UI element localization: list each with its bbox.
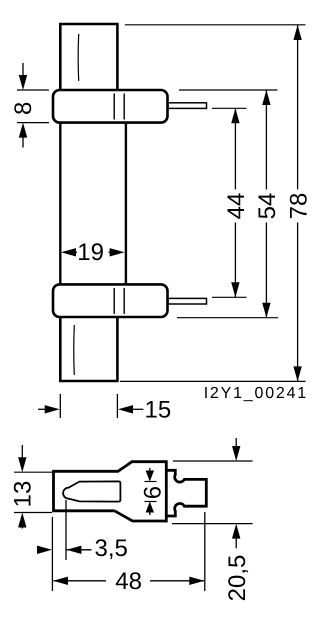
svg-text:6: 6 [140,486,167,499]
bottom tube [60,315,117,381]
extension line clamp1 top (54) [179,89,278,91]
clamp 1 slot lines [113,94,115,120]
fuse tube body (between clamps) [60,121,126,286]
clamp 2 (lower holder) [53,284,168,317]
svg-text:44: 44 [223,193,250,220]
svg-text:19: 19 [77,239,104,266]
bottom view right edge of wide section [165,460,168,522]
dimension 19 arrows [61,248,76,256]
top cap [60,24,117,91]
extension line tube bottom [120,380,306,382]
dimension 15 ticks [59,394,61,418]
dimension 44 line [234,108,236,297]
dimension 48 line and arrows [54,580,107,582]
dimension 15 arrows [38,408,45,410]
extension line clamp2 bottom (54) [177,317,278,319]
clamp 1 (upper holder) [53,90,168,123]
dimension 20,5 arrows [235,438,237,457]
dimension 6 arrows [149,468,151,471]
dimension 48 ticks [204,512,206,591]
svg-text:13: 13 [9,481,36,508]
svg-text:I2Y1_00241: I2Y1_00241 [204,385,308,402]
dimension 8 arrows [22,63,24,86]
svg-text:15: 15 [145,397,172,424]
extension line pin1 bottom (44) [212,107,247,109]
dimension 13 extension lines [14,471,52,473]
svg-text:78: 78 [285,193,312,220]
svg-text:3,5: 3,5 [95,535,128,562]
dimension 44 arrows [231,108,239,123]
terminal plug profile [166,470,206,516]
dimension 54 arrows [262,90,270,105]
svg-text:48: 48 [115,568,142,595]
svg-text:8: 8 [10,102,37,115]
dimension 13 arrows [21,445,23,468]
slot (bullet shaped hole) [63,481,120,501]
pin 1 (upper terminal) [168,103,207,109]
dimension 78 line [297,25,299,381]
pin 2 (lower terminal) [168,298,207,304]
bottom tube highlight [73,325,76,375]
dimension 3,5 ticks [51,517,53,591]
clamp 2 slot lines [113,288,115,314]
dimension 3,5 arrows [38,549,40,551]
svg-text:20,5: 20,5 [224,555,251,602]
extension line cap top [125,24,306,26]
svg-text:54: 54 [254,193,281,220]
dimension 6 stubs [145,481,157,483]
top cap highlight [77,34,80,81]
bottom view outline [54,462,167,521]
dimension 8 extension lines [17,89,49,91]
dimension 78 arrows [293,25,301,40]
dimension 54 line [265,90,267,318]
dimension 20,5 extension lines [173,460,253,462]
extension line pin2 top (44) [212,296,247,298]
